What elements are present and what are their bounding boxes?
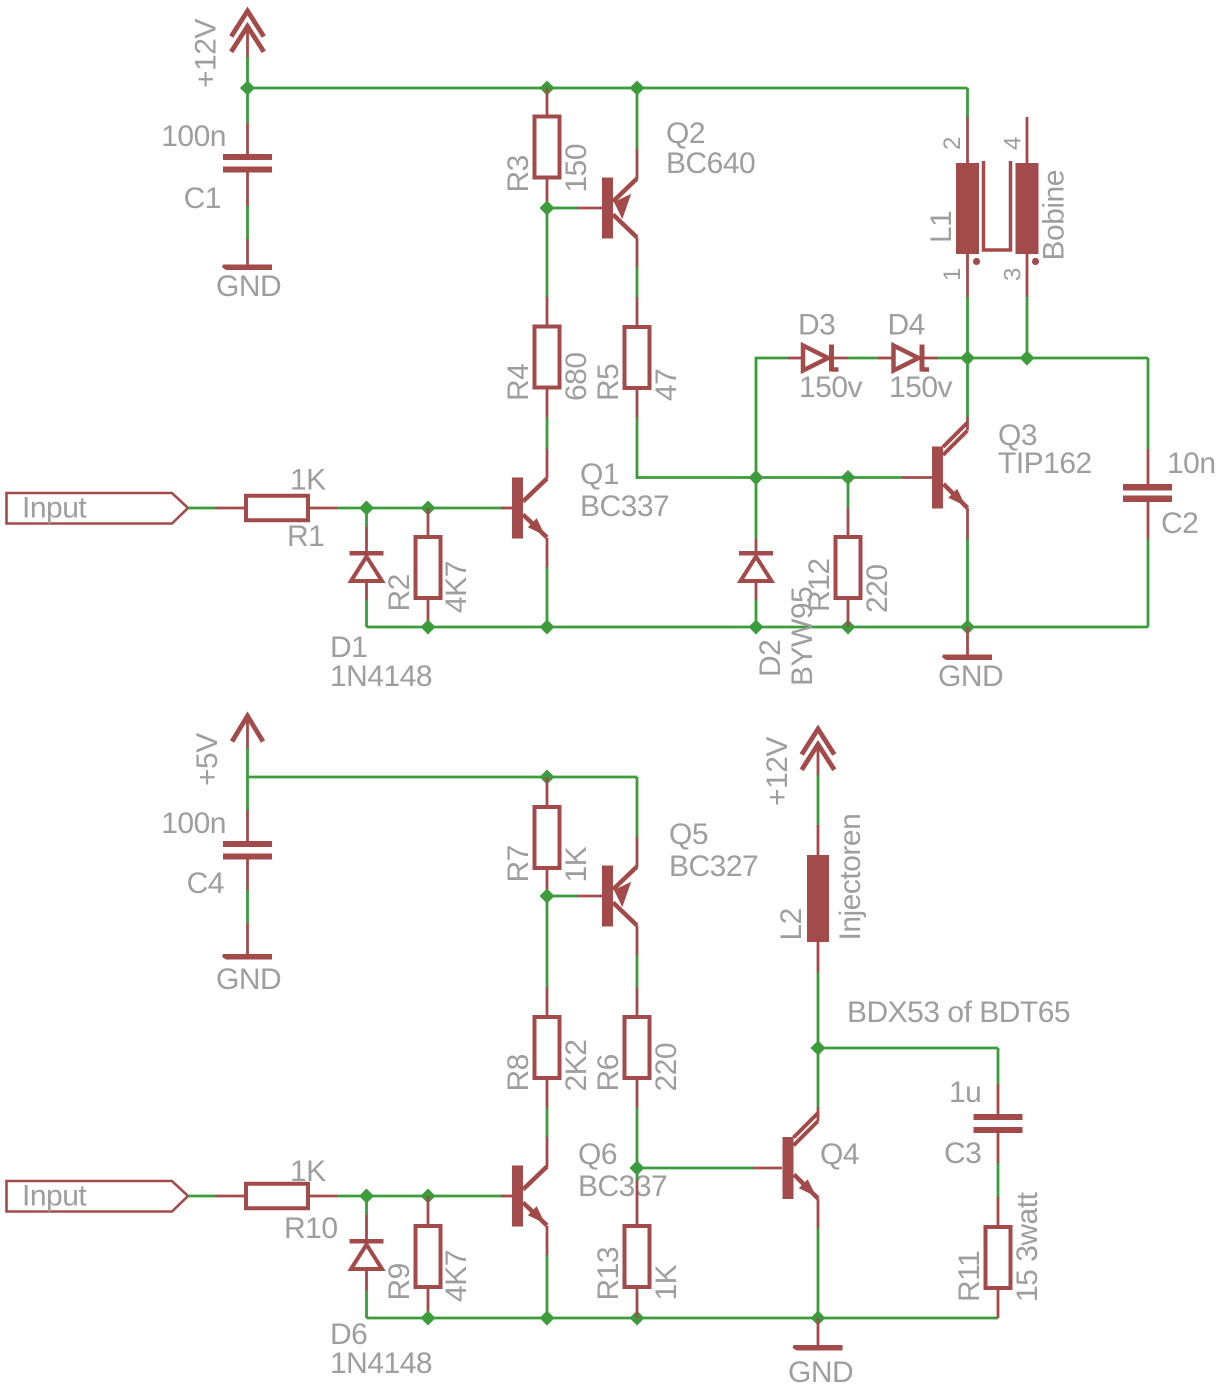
svg-text:3: 3 <box>1000 268 1027 281</box>
node Q4 base <box>630 1161 645 1176</box>
transistor Q3 <box>932 447 943 509</box>
wire <box>817 1228 820 1318</box>
svg-text:+12V: +12V <box>190 19 223 88</box>
junction R3 top <box>540 81 555 96</box>
polarity dot winding2 <box>1032 258 1039 265</box>
wire D2 top pin <box>755 539 758 552</box>
svg-text:R11: R11 <box>953 1251 986 1302</box>
wire <box>365 1196 368 1215</box>
wire R2 bottom pin <box>427 598 430 627</box>
svg-text:1N4148: 1N4148 <box>330 1347 432 1380</box>
wire D3 left pin <box>788 357 803 360</box>
diode D2 <box>739 551 773 556</box>
wire R7 bottom pin <box>546 868 549 896</box>
wire <box>365 600 368 627</box>
wire <box>246 57 249 88</box>
wire <box>246 777 249 810</box>
wire <box>636 955 639 987</box>
wire Q6 base pin <box>501 1195 512 1198</box>
wire <box>966 88 969 117</box>
wire R13 top pin <box>636 1180 639 1226</box>
wire <box>966 297 969 358</box>
polarity dot winding1 <box>973 258 980 265</box>
wire <box>636 1168 639 1180</box>
wire R1 right pin <box>308 507 337 510</box>
node L1 pin1 <box>960 351 975 366</box>
wire <box>817 972 820 1048</box>
svg-text:R9: R9 <box>383 1263 416 1300</box>
wire <box>817 775 820 825</box>
wire <box>337 507 428 510</box>
svg-text:4K7: 4K7 <box>440 1250 473 1302</box>
wire R3 bottom pin <box>546 180 549 209</box>
wire <box>636 777 639 837</box>
wire <box>428 507 501 510</box>
+12V supply symbol 2 <box>802 729 835 755</box>
wire gnd stub <box>246 239 249 265</box>
svg-text:Bobine: Bobine <box>1038 170 1071 260</box>
wire <box>246 88 249 123</box>
junction rail R9 <box>421 1311 436 1326</box>
svg-text:R2: R2 <box>383 574 416 611</box>
svg-text:R6: R6 <box>592 1054 625 1091</box>
wire <box>428 1195 501 1198</box>
transistor Q4 <box>783 1137 794 1199</box>
wire <box>337 1195 428 1198</box>
resistor R13 <box>625 1226 650 1287</box>
wire D1 top pin <box>365 527 368 551</box>
svg-text:BC337: BC337 <box>578 1170 667 1203</box>
wire R11 bottom pin <box>997 1288 1000 1318</box>
junction rail D2 <box>749 620 764 635</box>
svg-text:BC327: BC327 <box>669 850 758 883</box>
wire L2 bottom pin <box>817 942 820 972</box>
wire Q1 emitter pin <box>546 538 549 567</box>
wire Q3 collector pin <box>966 417 969 430</box>
wire Q5 base pin <box>577 895 602 898</box>
wire <box>246 890 249 923</box>
wire <box>755 600 758 627</box>
capacitor C2 <box>1123 484 1172 491</box>
wire <box>938 357 1148 360</box>
svg-text:L2: L2 <box>775 908 808 940</box>
resistor R3 <box>535 117 560 178</box>
wire Q4 base pin <box>753 1167 782 1170</box>
node +12V junction <box>240 81 255 96</box>
svg-text:10n: 10n <box>1167 447 1216 480</box>
wire R5 bottom pin <box>636 388 639 418</box>
svg-text:R1: R1 <box>287 520 324 553</box>
wire lower ground rail <box>367 1317 999 1320</box>
wire R13 bottom pin <box>636 1287 639 1318</box>
transistor Q2 <box>602 178 613 239</box>
wire Q3 emitter pin <box>966 508 969 539</box>
transistor Q1 <box>512 478 523 539</box>
wire R6 top pin <box>636 987 639 1017</box>
svg-text:GND: GND <box>216 270 281 303</box>
wire <box>817 1048 820 1107</box>
resistor R7 <box>535 807 560 868</box>
svg-text:GND: GND <box>216 963 281 996</box>
svg-text:Q1: Q1 <box>580 458 619 491</box>
svg-text:BC640: BC640 <box>666 147 755 180</box>
wire <box>636 88 639 149</box>
wire D2 upper <box>755 478 758 539</box>
svg-text:R7: R7 <box>502 845 535 882</box>
wire <box>546 208 549 297</box>
wire R5 to Q3 base rail <box>637 418 902 478</box>
wire R12 top pin <box>847 509 850 538</box>
diode D3 <box>803 346 828 371</box>
node R7 top <box>540 770 555 785</box>
svg-text:680: 680 <box>560 352 593 401</box>
wire <box>1147 539 1150 627</box>
wire <box>188 1195 215 1198</box>
wire L1 pin4 <box>1026 117 1029 163</box>
svg-text:1K: 1K <box>290 1155 326 1188</box>
transformer L1 core <box>984 161 1011 250</box>
wire +5V rail <box>248 776 638 779</box>
wire D6 top pin <box>365 1215 368 1239</box>
resistor R6 <box>625 1017 650 1078</box>
wire Q1 collector pin <box>546 449 549 479</box>
junction rail GND <box>960 620 975 635</box>
wire R10 right pin <box>308 1195 337 1198</box>
wire R12 bottom pin <box>847 598 850 627</box>
wire gnd stub <box>246 923 249 954</box>
wire R3 top pin <box>546 88 549 117</box>
diode D1 <box>350 551 384 556</box>
svg-text:1: 1 <box>939 268 966 281</box>
wire R10 left pin <box>215 1195 246 1198</box>
svg-text:Injectoren: Injectoren <box>834 814 867 941</box>
svg-text:BC337: BC337 <box>580 490 669 523</box>
inductor L2 <box>807 855 829 942</box>
wire gnd stub <box>966 627 969 655</box>
transformer L1 winding 2 <box>1016 163 1039 254</box>
junction rail R12 <box>841 620 856 635</box>
resistor R4 <box>535 327 560 388</box>
wire <box>546 418 549 450</box>
wire Q1 base pin <box>501 507 512 510</box>
wire <box>365 1291 368 1318</box>
wire R1 left pin <box>215 507 246 510</box>
wire D4 left pin <box>878 357 894 360</box>
wire L1 pin2 <box>966 117 969 163</box>
diode D6 <box>350 1239 384 1244</box>
wire Q5 collector pin <box>636 926 639 956</box>
wire <box>818 1047 998 1050</box>
ground below C1 <box>222 265 272 271</box>
wire <box>547 895 577 898</box>
svg-text:Input: Input <box>22 492 87 525</box>
svg-text:220: 220 <box>650 1043 683 1092</box>
svg-text:D4: D4 <box>888 309 925 342</box>
wire <box>997 1163 1000 1197</box>
svg-text:150: 150 <box>560 144 593 193</box>
wire <box>637 1167 753 1170</box>
capacitor C3 <box>974 1114 1023 1120</box>
svg-text:R5: R5 <box>592 364 625 401</box>
wire R9 bottom pin <box>427 1287 430 1318</box>
wire <box>246 748 249 777</box>
wire <box>1026 297 1029 358</box>
wire <box>246 206 249 239</box>
wire Q4 collector pin <box>817 1107 820 1121</box>
capacitor C1 <box>223 154 272 160</box>
resistor R12 <box>836 537 861 598</box>
svg-text:R3: R3 <box>502 155 535 192</box>
junction rail Q6 <box>540 1311 555 1326</box>
wire <box>636 267 639 297</box>
wire Q4 emitter pin <box>817 1199 820 1229</box>
svg-text:C2: C2 <box>1161 507 1198 540</box>
wire R6 bottom pin <box>636 1078 639 1108</box>
wire C2 top pin <box>1147 449 1150 484</box>
svg-text:C4: C4 <box>187 867 224 900</box>
wire top +12V rail <box>248 87 968 90</box>
svg-text:Input: Input <box>22 1180 87 1213</box>
node D6 top <box>359 1189 374 1204</box>
svg-text:Q5: Q5 <box>669 818 708 851</box>
wire <box>636 1108 639 1168</box>
wire C3 top pin <box>997 1084 1000 1114</box>
svg-text:Q2: Q2 <box>666 117 705 150</box>
svg-text:D3: D3 <box>798 309 835 342</box>
resistor R11 <box>986 1227 1011 1288</box>
svg-text:4K7: 4K7 <box>440 561 473 613</box>
wire D1 bottom pin <box>365 583 368 600</box>
svg-text:1K: 1K <box>290 464 326 497</box>
junction rail R13 <box>630 1311 645 1326</box>
ground top right <box>942 655 992 661</box>
wire gnd stub <box>817 1318 820 1345</box>
svg-text:C1: C1 <box>184 182 221 215</box>
wire <box>188 507 215 510</box>
wire <box>966 539 969 627</box>
wire <box>847 478 850 509</box>
wire R4 bottom pin <box>546 388 549 418</box>
wire R2 top pin <box>427 508 430 537</box>
ground below C4 <box>222 954 272 960</box>
wire <box>547 207 577 210</box>
svg-text:15 3watt: 15 3watt <box>1011 1191 1044 1302</box>
ground lower <box>793 1345 843 1351</box>
svg-text:1u: 1u <box>949 1076 981 1109</box>
wire <box>756 358 788 478</box>
wire R4 top pin <box>546 297 549 327</box>
wire L1 pin3 <box>1026 254 1029 297</box>
resistor R1 <box>246 496 308 521</box>
svg-text:Q6: Q6 <box>578 1138 617 1171</box>
diode D4 <box>894 346 919 371</box>
node D1 top <box>359 501 374 516</box>
transistor Q6 <box>512 1166 523 1227</box>
svg-text:D2: D2 <box>754 640 787 677</box>
wire C4 pins <box>246 810 249 841</box>
node L1 pin3 <box>1020 351 1035 366</box>
svg-text:R4: R4 <box>502 364 535 401</box>
svg-text:GND: GND <box>938 660 1003 693</box>
node Q4 collector <box>811 1041 826 1056</box>
wire <box>365 508 368 527</box>
wire Q3 base pin <box>902 476 932 479</box>
svg-text:Q4: Q4 <box>820 1138 859 1171</box>
wire Q6 collector pin <box>546 1137 549 1167</box>
wire C1 pins <box>246 123 249 154</box>
transformer L1 winding 1 <box>956 163 979 254</box>
node D2/Q3 <box>749 470 764 485</box>
wire Q2 base pin <box>577 207 602 210</box>
svg-text:2K2: 2K2 <box>560 1040 593 1092</box>
resistor R2 <box>416 537 441 598</box>
+5V supply symbol <box>232 716 263 742</box>
wire D2 bottom pin <box>755 583 758 600</box>
svg-text:TIP162: TIP162 <box>998 447 1092 480</box>
input flag Input <box>7 493 189 524</box>
wire <box>1147 358 1150 449</box>
svg-text:R10: R10 <box>284 1212 338 1245</box>
transistor Q5 <box>602 866 613 927</box>
node Q2 base <box>540 201 555 216</box>
svg-text:150v: 150v <box>799 371 863 404</box>
node Q5 base <box>540 889 555 904</box>
svg-text:R12: R12 <box>803 558 836 612</box>
svg-text:BDX53 of BDT65: BDX53 of BDT65 <box>847 996 1070 1029</box>
wire Q5 emitter pin <box>636 837 639 867</box>
svg-text:47: 47 <box>650 369 683 401</box>
wire <box>546 567 549 627</box>
svg-text:4: 4 <box>1000 137 1027 150</box>
wire L2 top pin <box>817 825 820 855</box>
svg-text:GND: GND <box>788 1356 853 1387</box>
wire top ground rail <box>367 626 1149 629</box>
svg-text:+5V: +5V <box>191 733 224 786</box>
capacitor C4 <box>223 841 272 847</box>
wire <box>546 896 549 987</box>
svg-text:1K: 1K <box>650 1264 683 1300</box>
wire <box>848 357 878 360</box>
+12V supply symbol <box>231 11 264 37</box>
node R12 top <box>841 470 856 485</box>
wire <box>966 358 969 417</box>
resistor R10 <box>246 1184 308 1209</box>
svg-text:150v: 150v <box>889 371 953 404</box>
wire Q6 emitter pin <box>546 1226 549 1255</box>
resistor R5 <box>625 327 650 388</box>
wire <box>546 1255 549 1318</box>
svg-text:L1: L1 <box>925 211 958 243</box>
wire R5 top pin <box>636 297 639 327</box>
node R2 top <box>421 501 436 516</box>
node R9 top <box>421 1189 436 1204</box>
svg-text:220: 220 <box>861 564 894 613</box>
wire R11 top pin <box>997 1197 1000 1227</box>
wire Q2 collector pin <box>636 238 639 268</box>
junction rail GND2 <box>811 1311 826 1326</box>
wire <box>997 1048 1000 1084</box>
resistor R9 <box>416 1226 441 1287</box>
junction rail Q1 <box>540 620 555 635</box>
wire R8 top pin <box>546 987 549 1017</box>
svg-text:100n: 100n <box>161 807 226 840</box>
svg-text:R8: R8 <box>502 1054 535 1091</box>
wire R9 top pin <box>427 1196 430 1226</box>
wire D4 right pin <box>922 357 938 360</box>
wire <box>546 1108 549 1137</box>
wire C2 bottom pin <box>1147 502 1150 539</box>
svg-text:1N4148: 1N4148 <box>330 660 432 693</box>
junction Q2 emitter <box>630 81 645 96</box>
wire R7 top pin <box>546 777 549 807</box>
wire L1 pin1 <box>966 254 969 297</box>
svg-text:C3: C3 <box>944 1137 981 1170</box>
svg-text:100n: 100n <box>161 120 226 153</box>
junction rail R2 <box>421 620 436 635</box>
svg-text:R13: R13 <box>592 1247 625 1301</box>
svg-text:2: 2 <box>939 137 966 150</box>
wire Q2 emitter pin <box>636 149 639 179</box>
svg-text:+12V: +12V <box>761 737 794 806</box>
input flag Input 2 <box>7 1181 189 1212</box>
wire C3 bottom pin <box>997 1133 1000 1163</box>
resistor R8 <box>535 1017 560 1078</box>
wire D3 right pin <box>832 357 849 360</box>
svg-text:1K: 1K <box>560 846 593 882</box>
wire D6 bottom pin <box>365 1271 368 1291</box>
wire R8 bottom pin <box>546 1078 549 1108</box>
